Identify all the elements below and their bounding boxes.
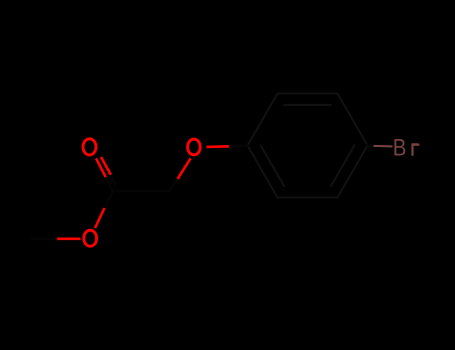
double bond C8=O1 second line oxygen half (101, 157, 111, 175)
atom O2 phenoxy oxygen (188, 139, 201, 155)
ring double bond inner line top (C2=C3) (284, 104, 331, 106)
bond O2-C7 carbon half (170, 180, 178, 191)
bond C4-Br carbon half (368, 144, 374, 147)
bond C4-Br bromine half (374, 145, 393, 148)
double bond C8=O1 second line carbon half (111, 175, 116, 185)
atom label Br (393, 134, 420, 161)
bond O2-C7 oxygen half (O down-left to CH2) (177, 158, 191, 180)
atom O1 carbonyl oxygen (83, 139, 96, 155)
ring double bond inner line left (C6=C1) (261, 146, 284, 187)
bond O2-C1 carbon half (230, 144, 248, 147)
benzene ring C1-C6 (248, 94, 368, 198)
double bond C8=O1 main line oxygen half (96, 158, 106, 177)
bond C8-O3 oxygen half (95, 208, 105, 228)
bond O3-C9 oxygen half (ester O to methyl) (56, 238, 81, 241)
atom O3 ester oxygen (84, 230, 97, 246)
bond O3-C9 carbon half (32, 238, 56, 241)
ring double bond inner line right (C4=C5) (331, 146, 354, 187)
bond C7-C8 (CH2 to carbonyl C) (113, 190, 170, 193)
double bond C8=O1 main line carbon half (106, 177, 113, 191)
svg-text:B: B (393, 134, 407, 161)
bond O2-C1 oxygen half (phenoxy O to ring) (207, 145, 231, 148)
bond C8-O3 carbon half (carbonyl C down to ester O) (105, 191, 114, 208)
